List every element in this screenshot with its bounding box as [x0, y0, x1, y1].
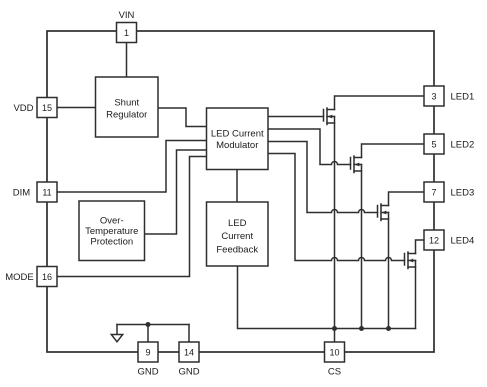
junction dot rail Q2 [359, 326, 364, 331]
block LED Current Modulator [207, 108, 269, 170]
svg-text:16: 16 [42, 272, 52, 282]
wire to GND pin9 [147, 325, 149, 343]
wire gate M1 [268, 116, 324, 118]
svg-text:GND: GND [137, 367, 158, 378]
wire MODE pin16 to LED Current Modulator [57, 157, 207, 277]
pin LED3 7 [424, 182, 444, 202]
svg-text:CS: CS [328, 367, 341, 378]
wire LED Current Feedback to source rail [238, 266, 416, 329]
wire to GND pin14 [188, 325, 190, 343]
svg-text:MODE: MODE [5, 272, 34, 283]
pin LED4 12 [424, 230, 444, 250]
svg-text:VIN: VIN [119, 10, 135, 21]
wire LED Current Modulator to LED Current Feedback [236, 170, 238, 203]
wire DIM pin11 to LED Current Modulator [57, 141, 207, 193]
svg-text:Modulator: Modulator [216, 140, 258, 151]
wire Q4 source to rail [415, 261, 417, 329]
wire Q2 drain to LED2 pin5 [362, 144, 425, 158]
wire VIN pin1 to Shunt Regulator [126, 43, 128, 78]
wire Q2 source to rail [361, 165, 363, 329]
junction dot ground node [146, 322, 151, 327]
block Shunt Regulator [96, 77, 159, 137]
wire Q3 source to rail [388, 213, 390, 329]
svg-text:1: 1 [124, 28, 129, 38]
junction dot rail Q1 [332, 326, 337, 331]
transistor Q3 [378, 204, 389, 221]
svg-text:Feedback: Feedback [216, 245, 258, 256]
wire Q1 source to rail and CS pin10 [334, 117, 336, 343]
svg-text:12: 12 [429, 235, 439, 245]
svg-text:DIM: DIM [13, 187, 31, 198]
wire gate M3 with hops [268, 142, 378, 213]
svg-text:11: 11 [42, 187, 51, 197]
wire Q1 drain to LED1 pin3 [335, 96, 425, 110]
svg-text:LED4: LED4 [451, 235, 475, 246]
svg-text:LED2: LED2 [451, 139, 475, 150]
pin VDD 15 [37, 98, 57, 118]
wire Q4 drain to LED4 pin12 [416, 240, 425, 254]
ground symbol [111, 325, 122, 342]
block Over-Temperature Protection [79, 201, 145, 261]
svg-text:9: 9 [145, 347, 150, 357]
svg-text:VDD: VDD [13, 103, 33, 114]
svg-text:Protection: Protection [90, 236, 133, 247]
pin DIM 11 [37, 182, 57, 202]
pin VIN 1 [117, 23, 137, 43]
svg-text:15: 15 [42, 103, 52, 113]
pin CS 10 [325, 342, 345, 362]
wire gate M4 with hops [268, 154, 405, 261]
svg-text:5: 5 [431, 139, 436, 149]
svg-text:LED: LED [228, 218, 247, 229]
junction dot rail Q3 [386, 326, 391, 331]
transistor Q1 [324, 108, 335, 125]
svg-text:GND: GND [178, 367, 199, 378]
svg-text:Current: Current [221, 231, 253, 242]
transistor Q4 [405, 252, 416, 269]
block LED Current Feedback [207, 202, 269, 266]
svg-text:3: 3 [431, 91, 436, 101]
pin LED2 5 [424, 134, 444, 154]
svg-text:7: 7 [431, 187, 436, 197]
svg-text:14: 14 [184, 347, 194, 357]
svg-text:LED Current: LED Current [211, 128, 264, 139]
svg-text:LED3: LED3 [451, 187, 475, 198]
svg-text:10: 10 [329, 347, 339, 357]
pin MODE 16 [37, 267, 57, 287]
wire Q3 drain to LED3 pin7 [389, 192, 425, 206]
pin LED1 3 [424, 86, 444, 106]
svg-text:Regulator: Regulator [106, 110, 147, 121]
svg-text:Shunt: Shunt [114, 98, 139, 109]
ground net wire [117, 324, 189, 326]
svg-text:Over-: Over- [100, 216, 124, 227]
pin GND 9 [138, 342, 158, 362]
pin GND 14 [179, 342, 199, 362]
transistor Q2 [351, 156, 362, 173]
wire gate M2 with hop [268, 129, 351, 165]
wire Over-Temperature Protection to LED Current Modulator [145, 150, 207, 234]
wire Shunt Regulator to LED Current Modulator [158, 108, 207, 127]
IC outline border [47, 31, 434, 352]
wire VDD pin15 to Shunt Regulator [57, 107, 96, 109]
svg-text:LED1: LED1 [451, 91, 475, 102]
